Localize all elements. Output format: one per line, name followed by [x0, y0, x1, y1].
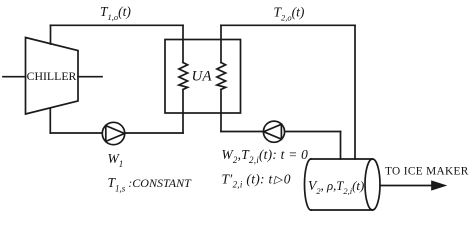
chiller U1 body — [26, 38, 79, 115]
wire left branch upper — [182, 25, 184, 62]
svg-text:TO ICE MAKER: TO ICE MAKER — [385, 166, 469, 178]
wire right branch upper — [220, 25, 222, 62]
wire T2o down to tank — [354, 25, 356, 159]
arrow to ice maker — [380, 185, 436, 187]
wire right branch lower — [220, 90, 222, 132]
svg-text:UA: UA — [192, 69, 213, 85]
wire riser to tank from pump W2 — [340, 132, 342, 160]
resistor left coil — [179, 63, 188, 90]
pump W2 — [263, 121, 284, 142]
wire top-left pipe T1o — [51, 24, 184, 26]
svg-text:CHILLER: CHILLER — [27, 69, 77, 83]
tank right end ellipse — [365, 159, 380, 210]
wire bottom-right pipe — [221, 131, 341, 133]
wire chiller bottom drop — [49, 109, 51, 133]
chiller left stub — [3, 76, 26, 78]
wire bottom-left pipe — [50, 132, 183, 134]
tank V2 body — [311, 159, 373, 210]
resistor right coil — [217, 63, 226, 90]
chiller right stub — [78, 76, 102, 78]
wire left branch lower — [182, 90, 184, 134]
pump W1 — [102, 122, 124, 144]
wire top-right pipe T2o — [221, 24, 355, 26]
tank left end arc — [305, 159, 311, 210]
heat exchanger box UA — [165, 40, 241, 114]
wire chiller top riser — [50, 25, 52, 44]
